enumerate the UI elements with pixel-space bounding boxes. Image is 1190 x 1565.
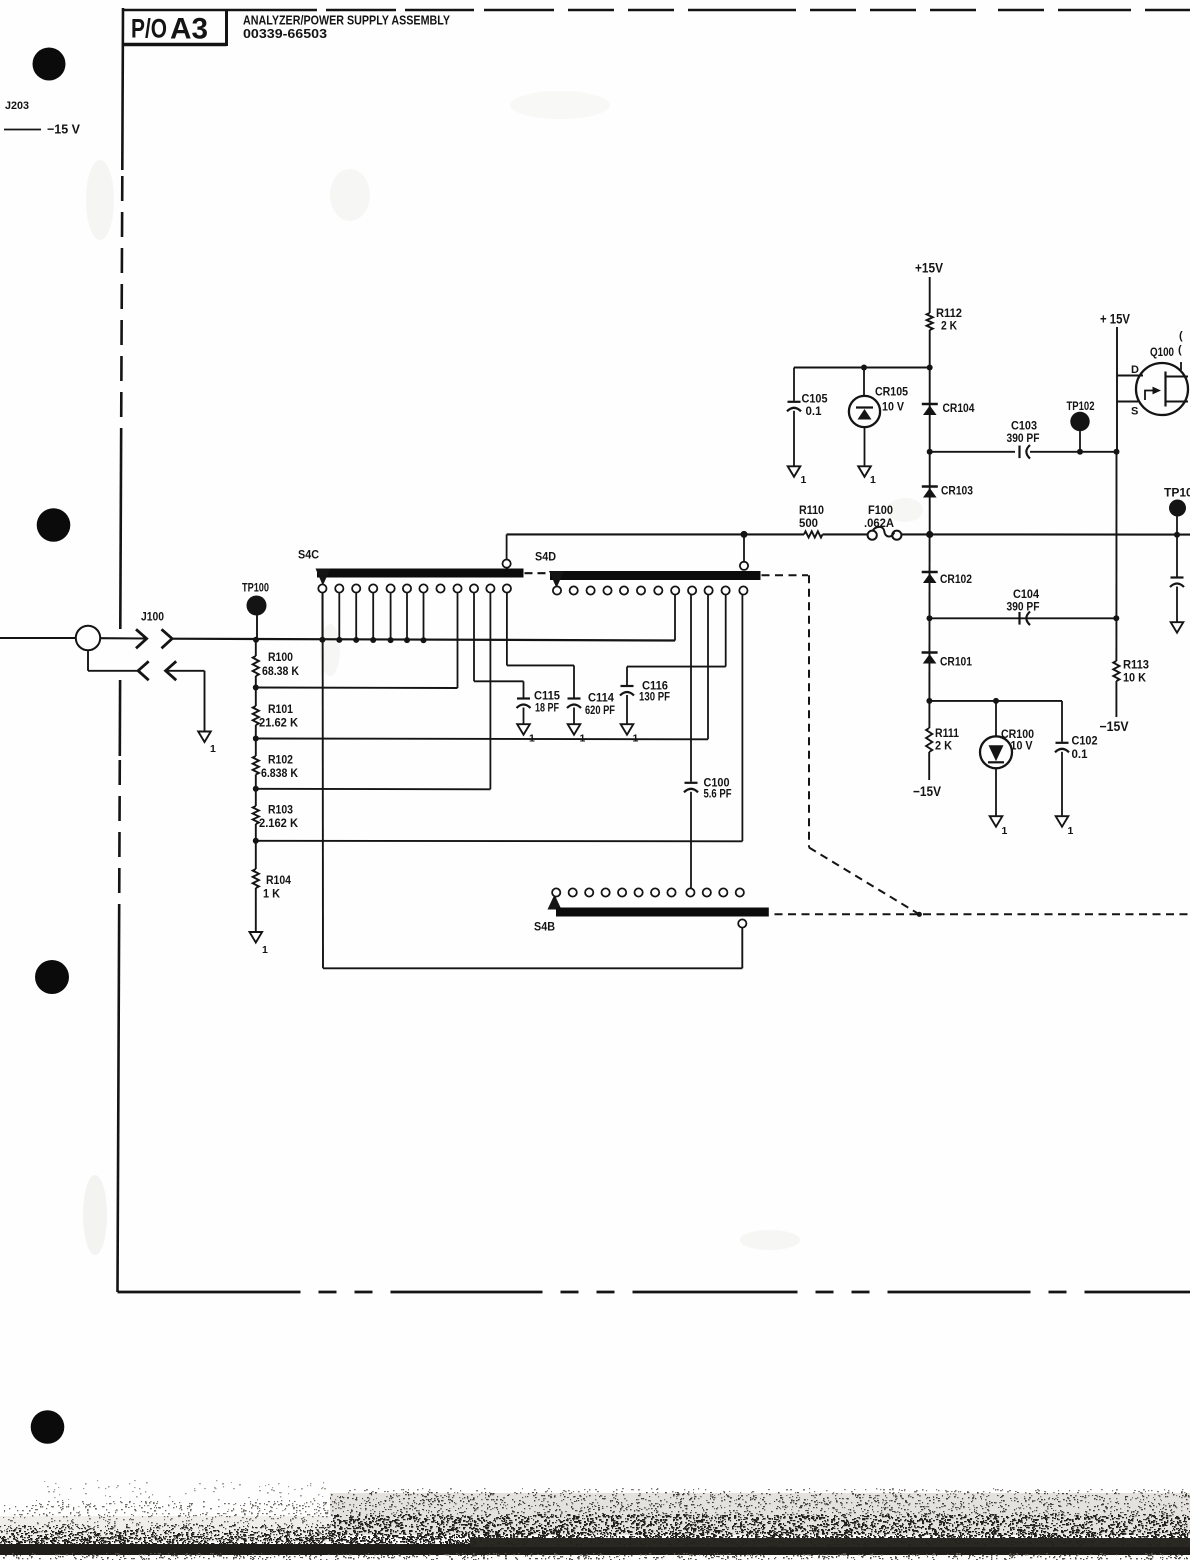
svg-text:5.6 PF: 5.6 PF (704, 787, 732, 801)
svg-text:CR105: CR105 (875, 385, 908, 399)
svg-text:P/O: P/O (131, 14, 167, 44)
svg-text:+ 15V: + 15V (1100, 312, 1130, 327)
svg-text:10 V: 10 V (1011, 739, 1033, 753)
svg-text:R100: R100 (268, 650, 293, 664)
svg-text:S: S (1131, 406, 1138, 418)
svg-text:TP101: TP101 (1164, 486, 1190, 500)
svg-text:S4D: S4D (535, 550, 556, 564)
svg-text:10 K: 10 K (1123, 671, 1146, 685)
svg-text:1: 1 (1068, 825, 1074, 837)
svg-text:−15V: −15V (913, 784, 941, 799)
svg-text:1: 1 (1002, 825, 1008, 837)
svg-text:1: 1 (210, 743, 216, 755)
svg-text:620 PF: 620 PF (585, 703, 615, 717)
svg-text:(: ( (1178, 344, 1182, 356)
svg-text:130 PF: 130 PF (639, 690, 670, 704)
svg-text:2 K: 2 K (941, 319, 957, 333)
svg-text:R110: R110 (799, 503, 824, 517)
svg-text:500: 500 (799, 516, 818, 530)
svg-text:00339-66503: 00339-66503 (243, 27, 327, 41)
svg-text:.062A: .062A (864, 516, 894, 530)
svg-text:0.1: 0.1 (1072, 747, 1088, 761)
svg-text:1: 1 (262, 944, 268, 956)
svg-text:+15V: +15V (915, 260, 944, 276)
svg-text:68.38 K: 68.38 K (262, 664, 299, 678)
svg-text:1: 1 (633, 733, 639, 745)
svg-text:Q100: Q100 (1150, 345, 1174, 359)
svg-text:J100: J100 (141, 610, 164, 624)
svg-text:R102: R102 (268, 753, 293, 767)
svg-text:ANALYZER/POWER SUPPLY ASSEMBLY: ANALYZER/POWER SUPPLY ASSEMBLY (243, 14, 451, 28)
svg-text:2 K: 2 K (935, 739, 952, 753)
svg-text:J203: J203 (5, 100, 29, 112)
svg-text:R103: R103 (268, 803, 293, 817)
svg-text:1: 1 (529, 733, 535, 745)
svg-text:A3: A3 (170, 13, 208, 46)
svg-text:R104: R104 (266, 873, 291, 887)
svg-text:TP102: TP102 (1067, 399, 1095, 413)
svg-text:0.1: 0.1 (806, 404, 822, 418)
svg-text:−15 V: −15 V (47, 122, 80, 137)
svg-text:10 V: 10 V (882, 400, 904, 414)
svg-text:CR104: CR104 (943, 401, 975, 415)
svg-text:S4B: S4B (534, 920, 555, 934)
svg-text:1: 1 (870, 474, 876, 486)
svg-text:18 PF: 18 PF (535, 701, 559, 715)
svg-text:F100: F100 (868, 503, 893, 517)
svg-text:−15V: −15V (1100, 719, 1129, 734)
svg-text:CR101: CR101 (940, 655, 972, 669)
svg-text:R113: R113 (1123, 658, 1149, 672)
svg-text:TP100: TP100 (242, 581, 269, 595)
svg-text:390 PF: 390 PF (1007, 431, 1040, 445)
svg-text:1: 1 (580, 733, 586, 745)
svg-text:C102: C102 (1072, 734, 1098, 748)
svg-text:R101: R101 (268, 702, 293, 716)
svg-text:CR103: CR103 (941, 484, 973, 498)
svg-text:2.162 K: 2.162 K (259, 816, 298, 830)
svg-text:21.62 K: 21.62 K (259, 716, 298, 730)
svg-text:6.838 K: 6.838 K (261, 766, 298, 780)
svg-text:390 PF: 390 PF (1007, 600, 1040, 614)
svg-text:D: D (1131, 364, 1139, 376)
svg-text:CR102: CR102 (940, 572, 972, 586)
svg-text:(: ( (1179, 330, 1183, 342)
svg-text:S4C: S4C (298, 548, 319, 562)
svg-text:1: 1 (801, 474, 807, 486)
svg-text:1 K: 1 K (263, 887, 280, 901)
